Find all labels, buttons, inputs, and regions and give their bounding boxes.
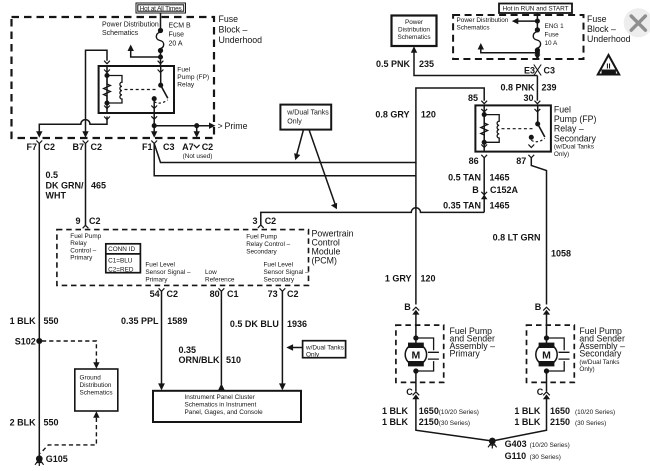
pin chevron relay2 85 xyxy=(481,101,487,112)
label 85 xyxy=(468,93,478,103)
junction dot below fuse xyxy=(536,51,540,55)
svg-text:1 BLK: 1 BLK xyxy=(382,406,409,416)
close button circle xyxy=(624,8,650,37)
svg-text:WHT: WHT xyxy=(46,191,67,201)
label Fuel Pump Relay Control - Secondary xyxy=(246,234,290,256)
ground G105 symbol xyxy=(35,459,44,466)
w/Dual Tanks Only callout box (lower) xyxy=(303,341,346,358)
svg-text:465: 465 xyxy=(91,180,106,190)
arrow into block edge E3 xyxy=(534,54,540,59)
svg-text:20 A: 20 A xyxy=(169,41,183,48)
svg-text:B: B xyxy=(535,302,542,312)
svg-text:C3: C3 xyxy=(544,65,556,75)
wire fuse to relay switch pin xyxy=(160,51,162,67)
svg-text:(30 Series): (30 Series) xyxy=(575,420,606,427)
svg-text:Only: Only xyxy=(287,119,302,126)
svg-text:Fuel Pump: Fuel Pump xyxy=(70,233,101,240)
svg-text:1589: 1589 xyxy=(167,316,187,326)
switch pivot dot relay2 xyxy=(536,122,540,126)
svg-text:Fuel: Fuel xyxy=(554,104,571,114)
junction dot coil top xyxy=(105,74,109,78)
svg-text:80: 80 xyxy=(210,289,220,299)
OBD II symbol xyxy=(598,55,619,75)
wire F1 down from prime line xyxy=(153,126,155,134)
arrow right to Prime xyxy=(209,123,216,129)
svg-text:(Not used): (Not used) xyxy=(183,153,213,160)
svg-text:Relay: Relay xyxy=(177,82,195,89)
switch contact dot xyxy=(152,97,156,101)
ground symbol G403 xyxy=(488,442,497,449)
svg-text:Underhood: Underhood xyxy=(219,35,263,45)
label 2 BLK 550 xyxy=(10,417,59,427)
connector Y at F1 C3 xyxy=(151,141,157,144)
wire pin 54 to cluster xyxy=(161,291,163,386)
label G105 xyxy=(46,454,68,464)
fuel pump relay box (primary) xyxy=(99,66,174,113)
svg-text:C1=BLU: C1=BLU xyxy=(108,257,133,264)
svg-text:Primary: Primary xyxy=(70,255,93,262)
svg-text:Control –: Control – xyxy=(70,247,96,254)
svg-text:(w/Dual Tanks: (w/Dual Tanks xyxy=(554,144,594,151)
instrument panel cluster box xyxy=(153,391,301,422)
wire 0.8 GRY down to pump B with junctions xyxy=(415,163,417,305)
label 0.8 PNK 239 xyxy=(500,83,556,93)
label 9 C2 xyxy=(75,216,100,226)
ground distribution schematics box xyxy=(75,369,118,411)
svg-text:1058: 1058 xyxy=(551,249,571,259)
sender hooks secondary xyxy=(547,338,570,371)
label M secondary xyxy=(542,349,551,361)
label 0.8 LT GRN 1058 xyxy=(493,233,571,259)
arrow up into box bottom xyxy=(93,411,99,418)
relay coil vertical wire xyxy=(106,66,108,113)
label Fuel Pump and Sender Assembly - Secondary xyxy=(579,326,625,373)
label Fuse Block - Underhood (left) xyxy=(219,14,263,45)
svg-text:Sensor Signal –: Sensor Signal – xyxy=(145,269,191,276)
resistor R relay primary xyxy=(104,77,111,103)
dashed wire box to G105 xyxy=(40,418,96,454)
junction dot xyxy=(536,19,540,23)
close button X xyxy=(631,16,645,30)
label B C152A xyxy=(472,185,518,195)
svg-text:Power Distribution: Power Distribution xyxy=(457,17,509,24)
wire pin 86 down xyxy=(483,158,485,212)
label Hot in RUN and START xyxy=(503,6,569,13)
svg-text:Low: Low xyxy=(205,269,217,276)
fuse block underhood (right) dashed box xyxy=(453,15,583,59)
splice S102 xyxy=(37,339,42,344)
svg-text:(PCM): (PCM) xyxy=(312,256,337,266)
label Power Distribution Schematics box xyxy=(397,19,430,41)
fuel pump relay secondary box xyxy=(475,105,551,151)
connector chevron PCM pin 9 xyxy=(83,225,89,228)
svg-text:Fuel Pump: Fuel Pump xyxy=(246,234,277,241)
label 1 BLK 2150 secondary xyxy=(514,417,606,427)
label w/Dual Tanks Only (upper) xyxy=(286,110,329,126)
wire pin 87 down to secondary pump xyxy=(531,158,546,305)
svg-text:1 GRY: 1 GRY xyxy=(385,274,412,284)
svg-text:Fuel: Fuel xyxy=(177,66,190,73)
label 0.8 GRY 120 (lower) xyxy=(385,274,436,284)
arrowhead at 73 wire xyxy=(286,344,293,351)
svg-text:Fuse: Fuse xyxy=(587,14,607,24)
svg-text:M: M xyxy=(542,349,551,361)
arrow up from cluster (80) xyxy=(218,383,225,390)
Hot at All Times box xyxy=(136,3,186,13)
svg-text:Sensor Signal –: Sensor Signal – xyxy=(264,269,310,276)
label 0.5 DK GRN/ WHT 465 xyxy=(46,170,107,201)
label C secondary xyxy=(537,387,544,397)
svg-text:CONN ID: CONN ID xyxy=(108,246,135,253)
svg-text:0.35 TAN: 0.35 TAN xyxy=(443,200,481,210)
svg-text:(10/20 Series): (10/20 Series) xyxy=(530,442,570,449)
pin chevron coil top xyxy=(104,61,110,73)
svg-text:0.5 DK BLU: 0.5 DK BLU xyxy=(230,319,279,329)
svg-text:Fuel Level: Fuel Level xyxy=(264,261,294,268)
svg-text:550: 550 xyxy=(44,417,59,427)
arrow into fuse block edge F7 xyxy=(36,131,42,138)
svg-text:S102: S102 xyxy=(15,336,36,346)
label 30 xyxy=(523,93,533,103)
svg-text:0.5 PNK: 0.5 PNK xyxy=(376,59,411,69)
svg-text:C2: C2 xyxy=(265,216,277,226)
svg-text:C2=RED: C2=RED xyxy=(108,266,134,273)
svg-text:Schematics: Schematics xyxy=(397,34,430,41)
label Fuse Block - Underhood (right) xyxy=(587,14,631,44)
motor M primary xyxy=(405,338,426,366)
svg-text:C2: C2 xyxy=(91,142,103,152)
wire S102 down to G105 xyxy=(38,341,40,457)
label Fuel Pump (FP) Relay xyxy=(177,66,209,88)
svg-text:F1: F1 xyxy=(142,142,153,152)
connector chevrons pump primary C xyxy=(413,392,420,395)
label G403 G110 xyxy=(505,439,570,461)
label 0.5 DK BLU 1936 xyxy=(230,319,307,329)
label 1 BLK 550 xyxy=(10,316,59,326)
svg-text:Prime: Prime xyxy=(225,121,248,131)
svg-text:Distribution: Distribution xyxy=(398,27,430,34)
switch contact dot relay2 xyxy=(530,136,534,140)
label Power Distribution Schematics (left) xyxy=(102,22,159,38)
connector chevron PCM pin 3 xyxy=(258,225,264,228)
pin chevron switch output below box xyxy=(151,106,157,120)
svg-text:C3: C3 xyxy=(163,142,175,152)
wire Hot RUN box down xyxy=(536,13,538,30)
pin chevron relay switch top xyxy=(158,61,164,73)
inductor coil relay primary xyxy=(107,76,122,104)
dashed link coil to switch relay2 xyxy=(502,128,533,130)
svg-text:ENG 1: ENG 1 xyxy=(545,23,565,30)
svg-text:E3: E3 xyxy=(524,65,535,75)
wire into pump primary xyxy=(415,314,417,339)
svg-text:54: 54 xyxy=(150,289,160,299)
connector chevron PCM pin 73 xyxy=(280,288,286,291)
svg-text:Relay –: Relay – xyxy=(554,124,584,134)
arrow into fuse block edge F1 xyxy=(151,131,157,138)
svg-text:Hot at All Times: Hot at All Times xyxy=(140,5,182,12)
wire fuse branch left xyxy=(131,49,161,57)
svg-text:2150: 2150 xyxy=(550,417,570,427)
connector chevron A7 (not used) xyxy=(194,145,200,148)
labels connector row F7 C2 B7 C2 F1 C3 A7 C2 xyxy=(26,142,213,152)
svg-text:(30 Series): (30 Series) xyxy=(530,454,561,461)
label ENG 1 Fuse 10 A xyxy=(545,23,565,47)
svg-text:DK GRN/: DK GRN/ xyxy=(46,180,84,190)
svg-text:G110: G110 xyxy=(505,451,527,461)
callout arrow to upper feed line xyxy=(297,130,304,156)
PCM dashed box xyxy=(57,230,309,286)
label 0.35 ORN/BLK 510 xyxy=(179,345,242,365)
svg-text:Only): Only) xyxy=(554,151,569,158)
svg-text:C2: C2 xyxy=(89,216,101,226)
connector chevron PCM pin 54 xyxy=(159,288,165,291)
label 54 C2 xyxy=(150,289,178,299)
svg-text:ECM B: ECM B xyxy=(169,23,192,30)
svg-text:1465: 1465 xyxy=(490,200,510,210)
svg-text:Power Distribution: Power Distribution xyxy=(102,22,159,29)
svg-text:0.8 PNK: 0.8 PNK xyxy=(500,83,535,93)
label M primary xyxy=(412,349,421,361)
svg-text:0.8 LT GRN: 0.8 LT GRN xyxy=(493,233,541,243)
svg-text:Relay: Relay xyxy=(70,240,87,247)
svg-text:w/Dual Tanks: w/Dual Tanks xyxy=(286,110,329,117)
dashed wire S102 to ground distribution box xyxy=(42,341,96,364)
svg-text:120: 120 xyxy=(421,109,436,119)
svg-text:Pump (FP): Pump (FP) xyxy=(554,114,597,124)
svg-text:Block –: Block – xyxy=(587,24,616,34)
svg-text:Primary: Primary xyxy=(145,276,168,283)
svg-text:120: 120 xyxy=(421,274,436,284)
label 0.8 GRY 120 (upper) xyxy=(375,109,436,119)
wire pump primary C down xyxy=(416,399,492,442)
label 0.35 PPL 1589 xyxy=(121,316,187,326)
svg-text:550: 550 xyxy=(44,316,59,326)
label 73 C2 xyxy=(268,289,299,299)
switch dashed throw arc xyxy=(154,100,167,103)
arrow up (power distribution right) xyxy=(478,43,484,50)
svg-text:0.5 TAN: 0.5 TAN xyxy=(448,172,481,182)
connector chevron PCM pin 80 xyxy=(219,288,225,291)
label Fuel Pump and Sender Assembly - Primary xyxy=(450,326,496,359)
svg-text:C: C xyxy=(406,387,413,397)
label Hot at All Times xyxy=(140,5,182,12)
connector chevrons pump secondary C xyxy=(543,392,550,395)
switch output wire down xyxy=(153,99,155,126)
label B primary xyxy=(404,302,411,312)
svg-text:C2: C2 xyxy=(44,142,56,152)
label ECM B Fuse 20 A xyxy=(169,23,192,48)
resistor relay2 xyxy=(481,116,488,142)
arrow into cluster box (54) xyxy=(158,383,165,390)
label 1 BLK 1650 secondary xyxy=(514,406,615,416)
svg-text:1 BLK: 1 BLK xyxy=(514,417,541,427)
wire branch left with arrow xyxy=(516,20,537,22)
junction dot coil top relay2 xyxy=(482,113,486,117)
wire motor bottom to C secondary xyxy=(546,371,548,391)
svg-text:C: C xyxy=(537,387,544,397)
svg-text:C152A: C152A xyxy=(490,185,519,195)
svg-text:M: M xyxy=(412,349,421,361)
wire into pump secondary xyxy=(546,314,548,339)
wire from Hot box to fuse xyxy=(160,13,162,30)
svg-text:Power: Power xyxy=(405,19,424,26)
label C primary xyxy=(406,387,413,397)
svg-text:A7: A7 xyxy=(182,142,194,152)
svg-text:OBD II: OBD II xyxy=(602,70,614,75)
junction dot coil bottom relay2 xyxy=(482,141,486,145)
svg-text:1465: 1465 xyxy=(490,172,510,182)
fuse ENG 1 10A xyxy=(533,28,540,52)
svg-text:Hot in RUN and START: Hot in RUN and START xyxy=(503,6,569,13)
svg-text:1 BLK: 1 BLK xyxy=(10,316,37,326)
svg-text:2150: 2150 xyxy=(419,417,439,427)
junction dot prime branch xyxy=(195,124,199,128)
svg-text:Distribution: Distribution xyxy=(80,382,112,389)
wire F7 down to S102 xyxy=(38,144,40,342)
svg-text:Schematics in Instrument: Schematics in Instrument xyxy=(185,402,257,409)
switch blade relay2 xyxy=(538,124,545,137)
arrow up to power distribution xyxy=(128,45,134,52)
pin chevron relay2 86 xyxy=(481,145,487,158)
label Fuel Pump (FP) Relay - Secondary xyxy=(554,104,597,158)
power distribution schematics box (solid) xyxy=(392,16,437,47)
svg-text:C2: C2 xyxy=(202,142,214,152)
svg-text:(10/20 Series): (10/20 Series) xyxy=(575,409,615,416)
svg-text:Secondary: Secondary xyxy=(579,348,622,358)
svg-text:Pump (FP): Pump (FP) xyxy=(177,74,209,81)
svg-text:0.8 GRY: 0.8 GRY xyxy=(375,109,409,119)
label Power Distribution Schematics (right fuse block) xyxy=(457,17,509,32)
callout arrow to pin86 chain line xyxy=(309,130,335,205)
svg-text:Relay Control –: Relay Control – xyxy=(246,241,290,248)
wire F1 slant to upper feed line xyxy=(154,88,484,163)
pin chevron relay2 30 xyxy=(535,101,541,112)
wire 0.8 PNK down to relay pin 30 xyxy=(536,76,538,101)
svg-text:Reference: Reference xyxy=(205,276,235,283)
wire B7 to PCM pin 9 xyxy=(85,144,87,226)
svg-text:1 BLK: 1 BLK xyxy=(382,417,409,427)
fuel pump secondary dashed box xyxy=(527,325,575,382)
wire pin 80 to cluster xyxy=(220,291,222,384)
switch blade xyxy=(161,85,168,98)
relay2 switch wire from pin 30 xyxy=(537,105,539,124)
connector Y at B7 C2 xyxy=(83,141,89,144)
Hot in RUN and START box xyxy=(499,4,572,14)
fuse ECM B 20A xyxy=(156,29,163,53)
wire pin 73 to cluster xyxy=(281,291,283,386)
svg-text:Secondary: Secondary xyxy=(554,133,597,143)
svg-text:1936: 1936 xyxy=(287,319,307,329)
connector E3 C3 X symbol xyxy=(534,65,541,76)
svg-text:0.35 PPL: 0.35 PPL xyxy=(121,316,159,326)
svg-text:2 BLK: 2 BLK xyxy=(10,417,37,427)
connector chevrons pump primary B xyxy=(413,307,420,310)
label Powertrain Control Module (PCM) xyxy=(312,228,354,265)
arrow into fuse block edge B7 xyxy=(82,131,88,138)
wire motor bottom to C xyxy=(415,371,417,391)
svg-text:Schematics: Schematics xyxy=(457,24,490,31)
prime feed horizontal wire xyxy=(154,125,211,127)
callout arrow to 73 wire xyxy=(290,347,303,349)
label w/Dual Tanks Only (lower) xyxy=(305,344,344,358)
svg-text:Schematics: Schematics xyxy=(102,30,139,37)
svg-text:Fuse: Fuse xyxy=(169,32,185,39)
ground junction dot G403 xyxy=(490,438,495,443)
svg-text:Schematics: Schematics xyxy=(80,390,113,397)
arrowhead left to schematics label xyxy=(512,18,519,24)
sender hooks primary xyxy=(416,338,439,371)
label Prime xyxy=(218,121,248,131)
junction dot switch output xyxy=(152,124,156,128)
relay switch wire from top xyxy=(160,66,162,85)
svg-text:0.35: 0.35 xyxy=(179,345,197,355)
svg-text:30: 30 xyxy=(523,93,533,103)
svg-text:w/Dual Tanks: w/Dual Tanks xyxy=(305,344,344,351)
wire pump secondary C down xyxy=(492,399,546,442)
connector chevrons pump secondary B xyxy=(543,307,550,310)
label Ground Distribution Schematics xyxy=(80,375,113,397)
svg-text:Block –: Block – xyxy=(219,25,248,35)
pin chevron coil bottom inside xyxy=(104,106,110,120)
label E3 C3 xyxy=(524,65,555,75)
label II in OBD triangle xyxy=(602,62,614,75)
svg-text:239: 239 xyxy=(542,83,557,93)
junction dot motor top xyxy=(414,336,418,340)
CONN ID table xyxy=(106,244,141,273)
junction dot motor top secondary xyxy=(545,336,549,340)
arrow into power distribution box xyxy=(411,46,417,53)
svg-text:Only: Only xyxy=(306,351,320,358)
label B secondary xyxy=(535,302,542,312)
junction dot coil bottom xyxy=(105,101,109,105)
wire F1 vertical to lower feed line xyxy=(154,144,416,176)
svg-text:(w/Dual Tanks: (w/Dual Tanks xyxy=(579,359,619,366)
label 80 C1 xyxy=(210,289,239,299)
wire 0.5 PNK branch to power distribution box xyxy=(414,51,537,76)
wire PCM pin3 to pin86 chain with hop over GRY xyxy=(261,208,484,225)
svg-text:86: 86 xyxy=(469,156,479,166)
arrow into cluster box (73) xyxy=(279,383,286,390)
w/Dual Tanks Only callout box (upper) xyxy=(280,105,331,130)
svg-text:Fuel Level: Fuel Level xyxy=(145,261,175,268)
label 1 BLK 1650 primary xyxy=(382,406,479,416)
svg-text:Secondary: Secondary xyxy=(246,249,277,256)
coil top pin loop to B7 xyxy=(86,50,108,133)
label Low Reference xyxy=(205,269,235,284)
svg-text:Only): Only) xyxy=(579,366,594,373)
svg-text:(10/20 Series): (10/20 Series) xyxy=(439,409,479,416)
label Fuel Level Sensor Signal - Secondary xyxy=(264,261,310,283)
junction dot motor bottom secondary xyxy=(545,369,549,373)
junction dot motor bottom xyxy=(414,369,418,373)
relay2 coil vertical wire xyxy=(483,105,485,151)
label Fuel Pump Relay Control - Primary xyxy=(70,233,101,262)
label S102 xyxy=(15,336,36,346)
motor M secondary xyxy=(536,338,557,366)
svg-text:(30 Series): (30 Series) xyxy=(439,420,470,427)
svg-text:Panel, Gages, and Console: Panel, Gages, and Console xyxy=(185,409,264,416)
fuel pump primary dashed box xyxy=(396,325,444,382)
label Instrument Panel Cluster Schematics xyxy=(185,394,264,416)
svg-text:Underhood: Underhood xyxy=(587,34,631,44)
svg-text:Primary: Primary xyxy=(450,348,481,358)
connector B C152A xyxy=(481,192,487,195)
svg-text:G403: G403 xyxy=(505,439,527,449)
svg-text:73: 73 xyxy=(268,289,278,299)
arrow into ground distribution box xyxy=(93,362,99,369)
svg-text:87: 87 xyxy=(516,156,526,166)
svg-text:B7: B7 xyxy=(72,142,84,152)
